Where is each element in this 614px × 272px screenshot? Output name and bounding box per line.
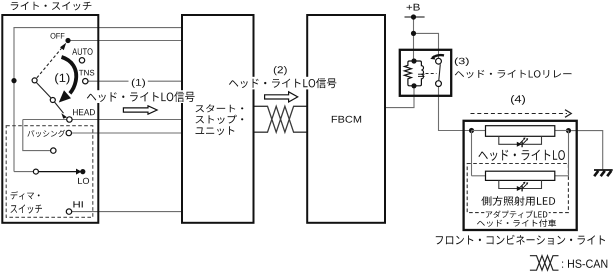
label: headlight LO signal text 2 (Japanese) [229,78,337,88]
relay switch top contact [436,58,442,64]
white backing for adaptive LED text [484,209,549,219]
label LO [78,178,89,184]
wire: HS-CAN low (start-stop to FBCM) with twist [254,106,307,132]
wire: FBCM to relay coil low side [386,86,415,108]
white backing for (1) signal text [86,90,197,103]
label (1) rotation [55,73,69,84]
block arrow 2 (headlight LO signal) [265,92,298,102]
relay contact arm arc [432,55,444,58]
node: +B junction dot [411,14,416,19]
dimmer wiper contact [33,169,38,174]
wire: front combination light to ground [571,131,603,170]
label : HS-CAN [562,260,607,268]
relay switch blade [439,64,441,80]
rotary wiper dashed arm to OFF (with arrowhead) [37,48,62,78]
label: with headlight (Japanese) [477,219,556,227]
wire: passing contact to start-stop unit [72,132,183,134]
label: headlight LO (Japanese) [478,150,565,161]
wire: parallel branch verticals [471,131,473,176]
wire: +B feed into relay [405,16,425,18]
node: HEAD contact [67,117,72,122]
start-stop unit box [182,15,254,223]
label: start-stop unit line1 [196,104,244,112]
rotation arrow (1) thick arc [62,57,77,93]
relay box (headlight LO relay) [400,50,451,96]
relay coil resistor (left element) [404,61,413,86]
wire: OFF contact to start-stop unit [68,40,182,42]
label: start-stop unit line3 [196,126,235,135]
LED symbol 2 (diode + emission arrows) [517,186,522,191]
node: TNS contact [83,79,88,84]
label (3) [455,58,469,67]
wire: HEAD contact to start-stop unit [23,119,182,121]
label: headlight LO relay (Japanese) [455,70,572,78]
label: dimmer line2 (Japanese) [11,204,43,213]
relay coil inductor (right element) [414,61,424,86]
node: AUTO contact [79,58,84,63]
wire: HEAD node down to passing contact [23,120,51,151]
passing contact [66,130,71,135]
wire: HI contact to start-stop unit [72,211,182,213]
rotary wiper solid arm mid contact [50,98,55,103]
LED symbol 1 (diode + emission arrows) [517,142,522,147]
label: adaptive LED (Japanese) [486,210,548,218]
side illumination LED module rect [486,171,555,180]
label TNS [79,70,94,76]
node: front light right junction dot [566,128,571,133]
wire: TNS contact to start-stop unit ((1) label gap) [85,80,128,82]
node: relay coil bottom dot [411,83,416,88]
light switch box [2,15,98,223]
white backing for (2) signal text [228,77,339,90]
relay switch bottom contact [436,81,442,87]
label: front combination light (Japanese) [436,235,605,245]
label: dimmer line1 (Japanese) [11,191,40,200]
label: side illumination LED (Japanese) [481,196,555,206]
wire: light switch common vertical (wiper feed) [14,28,182,81]
wire: HS-CAN high (start-stop to FBCM) with twist [254,106,307,132]
headlight LO module rect [486,126,555,137]
label: light switch title (Japanese) [11,2,92,11]
node: relay feed junction dot [411,31,416,36]
label: passing (Japanese) [27,130,65,137]
label +B [407,4,420,11]
relay dashed actuator link [426,73,437,75]
label FBCM [332,116,361,123]
adaptive LED dashed box (bottom gap for text) [467,164,568,213]
label OFF [51,33,65,39]
label: start-stop unit line2 [196,115,244,124]
node: relay coil top dot [411,58,416,63]
wire: across front light (headlight LO feed) [472,130,486,132]
HI contact [66,209,71,214]
wire: relay switch output to front combination light [439,87,469,131]
dimmer switch dashed box [6,126,93,218]
label (1) on TNS wire [132,79,145,88]
label: headlight LO signal text 1 (Japanese) [87,91,195,102]
node: wiper pivot junction dot [11,78,16,83]
rotary wiper solid arm to HEAD (with arrowhead) [36,83,51,99]
label HI [73,201,82,207]
passing lower contact [51,148,56,153]
ground symbol [594,169,613,171]
HS-CAN legend twist symbol [530,256,559,271]
node: OFF contact dot [65,38,70,43]
rotary wiper contact [32,78,37,83]
node: front light left junction dot [469,128,474,133]
label (4) [511,95,525,105]
front combination light box [464,121,577,230]
wire: dimmer wiper feed [14,171,33,173]
dashed arrow (4) [471,113,568,115]
node: LO contact dot [80,169,85,174]
headlight LO LED loop [499,136,542,144]
FBCM box [307,15,385,223]
label HEAD [73,109,95,115]
block arrow 1 (headlight LO signal) [123,106,157,114]
side illumination LED loop [499,180,542,188]
label (2) [274,66,287,75]
label AUTO [72,48,92,55]
wire: dimmer wiper arm to LO (arrow) [39,171,77,173]
